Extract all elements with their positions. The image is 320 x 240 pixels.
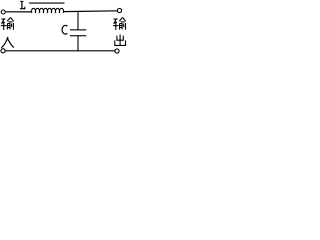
capacitor bottom lead [77,36,79,51]
capacitor C label [62,25,67,34]
inductor L coil [31,8,63,13]
wire top-right segment [63,10,117,13]
capacitor C bottom plate [70,35,86,36]
capacitor top lead [77,12,79,30]
terminal bottom-left [1,49,5,53]
terminal top-right [117,8,121,12]
wire bottom [5,50,114,52]
capacitor C top plate [70,29,86,30]
inductor core line [29,3,65,4]
inductor L label [20,1,25,9]
label 入 (input, left) [1,37,14,48]
wire top-left segment [6,11,32,13]
label 出 (output, right) [115,34,126,45]
terminal top-left [1,10,5,14]
label 输 (output, right) [113,18,126,31]
label 输 (input, left) [1,18,14,31]
terminal bottom-right [115,49,119,53]
